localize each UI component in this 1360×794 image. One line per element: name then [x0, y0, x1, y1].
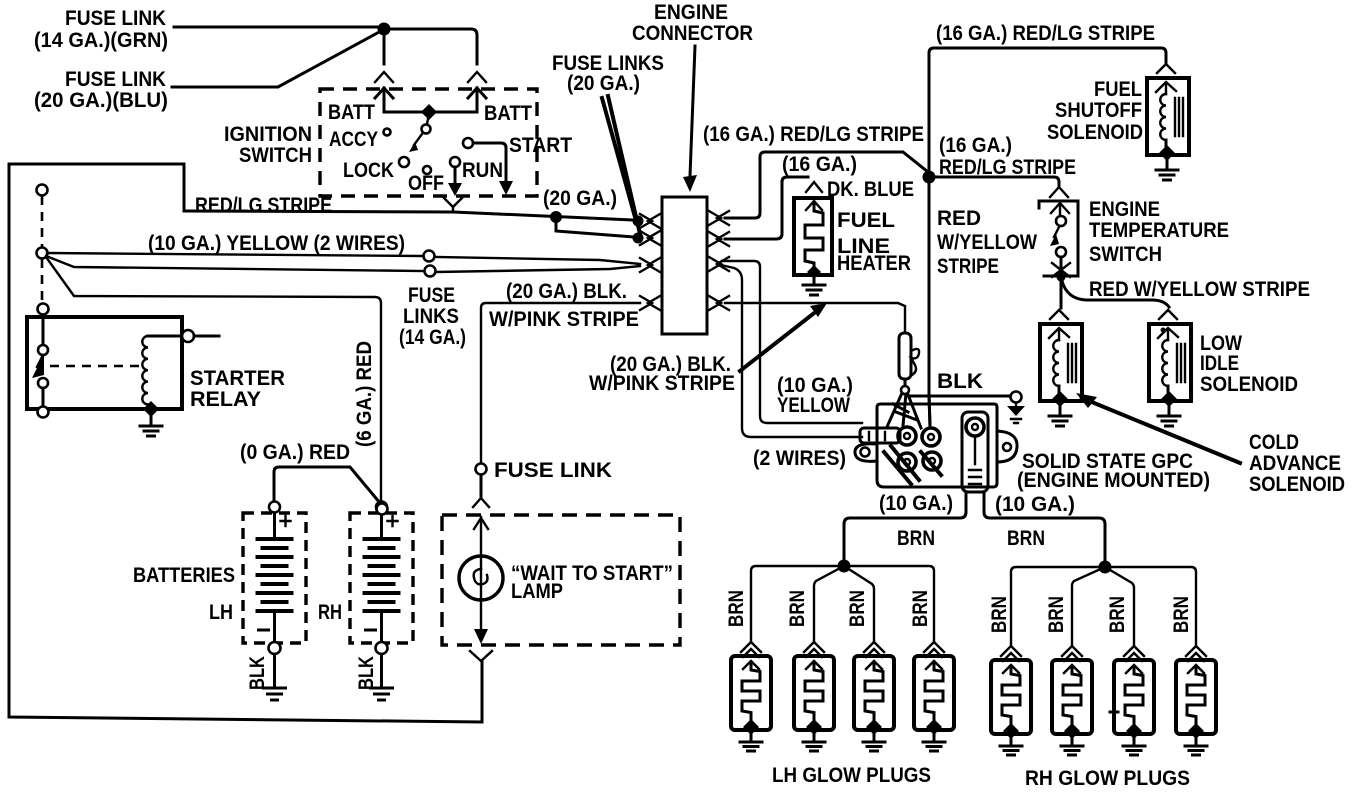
GPC right mounting ear [997, 431, 1017, 462]
node relay upper terminal [38, 304, 49, 315]
svg-text:FUSE: FUSE [408, 284, 455, 307]
svg-text:RED/LG STRIPE: RED/LG STRIPE [939, 156, 1076, 179]
connector chevron lamp return [470, 651, 492, 661]
heater ground [813, 278, 816, 284]
svg-text:SOLENOID: SOLENOID [1047, 121, 1143, 144]
svg-text:(20 GA.): (20 GA.) [567, 72, 640, 95]
wire yellow 1 [47, 253, 423, 256]
wire LH branch 2 [814, 566, 844, 641]
svg-text:BATT: BATT [328, 101, 375, 124]
glow plug LH4 [914, 642, 954, 751]
connector chevron pin6 [709, 232, 729, 246]
wire left riser and bottom return [9, 164, 482, 722]
svg-text:HEATER: HEATER [837, 252, 911, 275]
GPC left mounting ear [855, 444, 877, 462]
stray mark [1110, 711, 1118, 714]
wire 16 GA RED/LG from pin5 [725, 152, 928, 218]
svg-text:START: START [509, 134, 572, 157]
connector chevron left BATT [375, 72, 393, 82]
connector chevron fuel line heater [806, 182, 822, 192]
svg-text:(10 GA.): (10 GA.) [995, 493, 1075, 516]
svg-text:ENGINE: ENGINE [654, 1, 728, 24]
wire fuse link 20 GA BLU [172, 31, 381, 87]
node switch rotor [421, 104, 437, 120]
node battery RH positive [377, 504, 388, 515]
connector chevron pin4 [640, 296, 660, 310]
GPC output strip [962, 412, 988, 492]
svg-text:SWITCH: SWITCH [1089, 243, 1162, 266]
wire fuse links pointer b [608, 96, 640, 234]
connector chevron pin2 [640, 231, 660, 245]
connector chevron pin8 [709, 296, 729, 310]
wire RH branch 3 [1105, 567, 1134, 645]
wire 0 GA RED battery link [274, 467, 380, 503]
low idle solenoid L3 [1149, 310, 1191, 426]
GPC body hatching [884, 446, 941, 484]
fuel shutoff solenoid L1 [1147, 64, 1189, 180]
svg-text:(ENGINE MOUNTED): (ENGINE MOUNTED) [1017, 469, 1210, 492]
svg-text:BRN: BRN [786, 590, 809, 627]
svg-text:SOLENOID: SOLENOID [1249, 473, 1345, 496]
GPC terminal C [898, 453, 916, 471]
svg-text:(16 GA.): (16 GA.) [939, 134, 1012, 157]
fusible link F1 above GPC [899, 333, 911, 379]
wire RED W/YELLOW STRIPE to low idle solenoid [1062, 281, 1169, 307]
wire to fuel shutoff solenoid [929, 48, 1166, 171]
cold advance solenoid L2 [1040, 310, 1082, 426]
svg-text:(16 GA.) RED/LG STRIPE: (16 GA.) RED/LG STRIPE [936, 22, 1155, 45]
wire lamp return arrow [474, 629, 488, 644]
wire RH branch 4 [1105, 567, 1196, 645]
svg-text:BRN: BRN [1170, 596, 1193, 633]
connector chevron pin5 [709, 211, 729, 225]
wire label pointer W/PINK [740, 310, 818, 371]
glow plug RH4 [1176, 646, 1216, 755]
wire lamp feed inner [480, 517, 482, 633]
glow plug RH2 [1052, 646, 1092, 755]
relay ground [150, 415, 153, 424]
wire RUN feed [454, 167, 457, 184]
svg-text:BRN: BRN [897, 527, 935, 550]
svg-text:FUEL: FUEL [837, 209, 895, 232]
svg-text:BATTERIES: BATTERIES [133, 564, 235, 587]
svg-text:RED: RED [937, 207, 981, 230]
glow plug RH1 [991, 646, 1031, 755]
GPC terminal D [923, 452, 941, 470]
svg-text:(20 GA.): (20 GA.) [543, 187, 617, 210]
svg-text:FUSE LINK: FUSE LINK [65, 68, 166, 91]
BATT terminal arrow right [468, 88, 486, 112]
svg-text:(10 GA.): (10 GA.) [879, 492, 953, 515]
wire BLK ground [906, 395, 1010, 398]
lamp DS1 [459, 556, 503, 600]
glow plug LH1 [731, 642, 771, 751]
wire 10 GA BRN LH bus [844, 492, 966, 561]
svg-text:ACCY: ACCY [329, 128, 378, 151]
GPC harness plug [860, 428, 900, 443]
svg-text:SWITCH: SWITCH [239, 144, 312, 167]
svg-text:BRN: BRN [909, 590, 932, 627]
svg-text:BRN: BRN [1106, 596, 1129, 633]
svg-text:BLK: BLK [246, 656, 269, 690]
engine connector pointer [690, 46, 695, 176]
wire relay lower [42, 388, 45, 407]
node relay output terminal [182, 330, 194, 342]
svg-text:IDLE: IDLE [1200, 352, 1239, 375]
relay coil [142, 336, 148, 404]
wire dashed battery link upper [41, 196, 44, 247]
svg-text:LAMP: LAMP [511, 580, 563, 603]
wire to right BATT terminal [384, 29, 477, 64]
svg-text:FUSE LINK: FUSE LINK [494, 459, 612, 482]
glow plug LH2 [794, 642, 834, 751]
node relay bottom terminal [38, 407, 49, 418]
wire 16 GA DK BLUE from pin6 [725, 177, 808, 239]
svg-text:RED/LG STRIPE: RED/LG STRIPE [195, 194, 332, 217]
node heater ground junction [807, 265, 821, 279]
svg-text:ENGINE: ENGINE [1089, 198, 1160, 221]
stray mark [1161, 328, 1166, 333]
GPC terminal A [898, 427, 916, 445]
engine connector J1 [662, 197, 707, 334]
wire RH branch 1 [1011, 567, 1105, 645]
node relay contact lower [38, 378, 48, 388]
connector chevron lamp a [473, 498, 489, 507]
wire tap to second connector pin [556, 217, 634, 237]
contact START [463, 138, 473, 148]
svg-text:W/YELLOW: W/YELLOW [937, 231, 1037, 254]
svg-text:SOLENOID: SOLENOID [1200, 373, 1298, 396]
contact ACCY [384, 129, 391, 136]
connector chevron pin3 [640, 258, 660, 272]
wire START feed [473, 143, 506, 183]
node RH glow plug junction [1099, 561, 1112, 574]
svg-text:(0 GA.) RED: (0 GA.) RED [240, 441, 350, 464]
svg-text:(6 GA.) RED: (6 GA.) RED [353, 341, 376, 447]
solid state GPC U2 body [877, 404, 997, 487]
wire LH branch 4 [844, 566, 934, 641]
connector chevron ignition output [444, 198, 462, 212]
wire LH branch 3 [844, 566, 874, 641]
node coil ground junction [143, 401, 159, 417]
wire to left BATT terminal [383, 29, 386, 64]
svg-text:RH: RH [318, 601, 342, 624]
svg-text:ADVANCE: ADVANCE [1249, 452, 1341, 475]
wire relay output stub [194, 335, 219, 338]
wire cold advance pointer [1082, 398, 1240, 463]
node LH glow plug junction [838, 560, 851, 573]
svg-text:LH: LH [209, 601, 233, 624]
fuel line heater HTR1 [794, 198, 832, 275]
battery RH [350, 502, 413, 701]
svg-text:RH GLOW PLUGS: RH GLOW PLUGS [1025, 767, 1190, 790]
wire RED W/YELLOW STRIPE down to GPC [929, 183, 930, 426]
svg-text:(20 GA.)(BLU): (20 GA.)(BLU) [34, 89, 168, 112]
relay mechanical dashed link [50, 365, 140, 368]
node fuse link lamp [476, 464, 487, 475]
wire LH branch 1 [751, 566, 844, 641]
svg-text:(16 GA.): (16 GA.) [782, 153, 857, 176]
svg-text:FUEL: FUEL [1094, 78, 1142, 101]
svg-text:W/PINK STRIPE: W/PINK STRIPE [589, 372, 735, 395]
wire 10 GA BRN RH bus [984, 492, 1105, 562]
wire RED/LG STRIPE main feed [184, 211, 634, 220]
svg-text:BRN: BRN [1045, 596, 1068, 633]
svg-text:STARTER: STARTER [190, 367, 285, 390]
svg-text:(14 GA.)(GRN): (14 GA.)(GRN) [34, 29, 168, 52]
battery LH [243, 502, 306, 701]
node left harness junction [37, 248, 48, 259]
svg-text:STRIPE: STRIPE [937, 255, 999, 278]
wire fuse link 14 GA GRN [174, 26, 381, 29]
node pin 2 [633, 233, 644, 244]
svg-text:(16 GA.) RED/LG STRIPE: (16 GA.) RED/LG STRIPE [703, 123, 924, 146]
svg-text:BLK: BLK [355, 656, 378, 690]
connector chevron pin7 [709, 257, 729, 271]
svg-text:BRN: BRN [1007, 527, 1045, 550]
GPC top wire cluster [887, 392, 930, 428]
svg-text:RED W/YELLOW STRIPE: RED W/YELLOW STRIPE [1089, 278, 1310, 301]
wire coil top link [148, 335, 182, 338]
node BLK ground terminal [1011, 392, 1022, 403]
wire lamp feed upper [480, 475, 483, 496]
wire dashed battery link lower [41, 259, 44, 303]
svg-text:CONNECTOR: CONNECTOR [632, 22, 753, 45]
wire 6 GA RED [46, 257, 381, 504]
node temp switch output [1057, 273, 1066, 282]
svg-text:SHUTOFF: SHUTOFF [1055, 99, 1142, 122]
node fuse link junction [378, 23, 391, 36]
svg-text:(10 GA.) YELLOW (2 WIRES): (10 GA.) YELLOW (2 WIRES) [148, 232, 405, 255]
glow plug RH3 [1114, 646, 1154, 755]
BATT terminal arrow left [375, 88, 393, 112]
contact LOCK [399, 157, 409, 167]
svg-text:BRN: BRN [988, 596, 1011, 633]
wire to cold advance solenoid [1060, 283, 1063, 308]
svg-text:IGNITION: IGNITION [224, 123, 312, 146]
svg-text:BATT: BATT [484, 102, 532, 125]
contact RUN [450, 157, 460, 167]
GPC terminal B [922, 428, 940, 446]
svg-text:COLD: COLD [1249, 431, 1299, 454]
wire 10 GA yellow B from pin7 [722, 261, 862, 423]
svg-text:LINKS: LINKS [403, 305, 459, 328]
connector chevron pin1 [640, 214, 660, 228]
svg-text:(14 GA.): (14 GA.) [399, 326, 466, 349]
svg-text:YELLOW: YELLOW [777, 394, 850, 417]
svg-text:W/PINK STRIPE: W/PINK STRIPE [489, 308, 639, 331]
node relay contact upper [38, 345, 48, 355]
svg-text:RUN: RUN [462, 159, 503, 182]
relay armature [37, 355, 43, 367]
contact OFF [423, 166, 431, 174]
wire 20 GA BLK W/PINK from pin8 [725, 303, 905, 331]
glow plug LH3 [854, 642, 894, 751]
BLK ground symbol [1015, 403, 1017, 407]
wire 10 GA yellow A from pin7 [721, 265, 862, 437]
node RED/LG distribution [923, 171, 936, 184]
wire relay common [42, 315, 45, 345]
svg-text:DK. BLUE: DK. BLUE [827, 178, 914, 201]
svg-text:BRN: BRN [846, 590, 869, 627]
svg-text:(20 GA.) BLK.: (20 GA.) BLK. [506, 280, 627, 303]
svg-text:OFF: OFF [408, 172, 444, 195]
ignition switch U1 dashed housing [320, 89, 537, 196]
svg-text:FUSE LINK: FUSE LINK [65, 7, 166, 30]
switch lever [427, 114, 429, 124]
wire RH branch 2 [1072, 567, 1105, 645]
connector chevron right BATT [468, 72, 486, 82]
svg-text:LH GLOW PLUGS: LH GLOW PLUGS [772, 764, 931, 787]
wait to start lamp dashed housing [442, 515, 680, 645]
node pin 1 [633, 216, 644, 227]
svg-text:(2 WIRES): (2 WIRES) [753, 447, 846, 470]
svg-text:TEMPERATURE: TEMPERATURE [1089, 219, 1229, 242]
starter relay K1 housing [27, 317, 182, 409]
node left stub terminal [37, 185, 48, 196]
svg-text:LOCK: LOCK [343, 159, 394, 182]
svg-text:BRN: BRN [725, 590, 748, 627]
wire switch common [384, 111, 477, 114]
node RED/LG tap [550, 211, 562, 223]
engine temperature switch S1 [1050, 187, 1068, 197]
wire 20 GA BLK W/PINK to lamp [481, 303, 640, 463]
svg-text:BLK: BLK [937, 370, 983, 393]
wire to engine temperature switch [935, 177, 1059, 185]
wire yellow 2 [46, 256, 424, 271]
wire fuse links pointer a [602, 98, 635, 217]
svg-text:RELAY: RELAY [190, 388, 261, 411]
